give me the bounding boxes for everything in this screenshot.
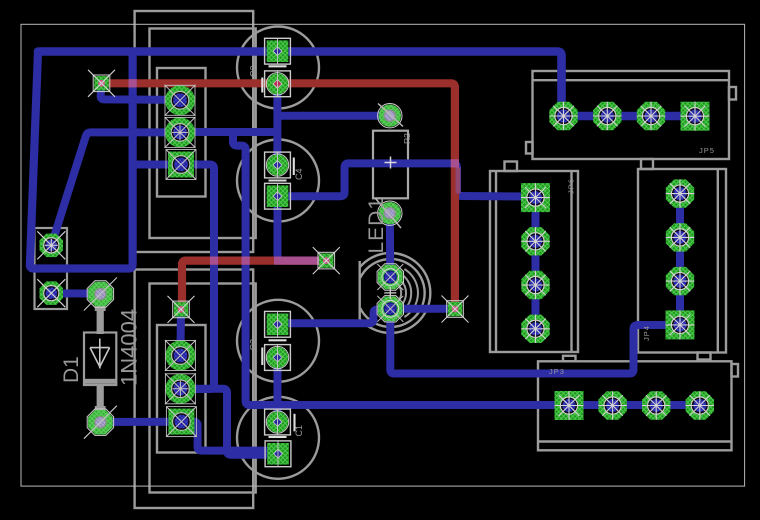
- via 4: [174, 302, 188, 316]
- wire via1 to IC1 pad1: [101, 83, 180, 100]
- svg-text:LED1: LED1: [365, 197, 388, 254]
- JP3 pad 1 (square): [555, 391, 584, 420]
- D1 cathode pad: [88, 410, 113, 435]
- svg-text:D1: D1: [60, 356, 83, 383]
- red-blue overlap patches: [129, 79, 461, 265]
- LED1 anode pad: [378, 265, 403, 290]
- resistor R2 silk box: [373, 131, 408, 199]
- wire SL1 pad2 to D1 anode: [51, 289, 100, 297]
- C3 polarity marks: [262, 66, 286, 92]
- via 3: [448, 302, 462, 316]
- wire JP6 pad column: [532, 198, 540, 329]
- R2 lead diagonals: [376, 104, 404, 229]
- C2 polarity marks: [262, 340, 286, 365]
- via 1: [94, 76, 108, 90]
- wire C4 minus down to via2: [278, 196, 327, 260]
- C4 polarity marks: [269, 158, 294, 181]
- silk box B2 inner (left module bottom): [150, 284, 256, 493]
- JP5 pad 2: [593, 102, 621, 130]
- R2 center cross: [385, 157, 397, 169]
- svg-text:C1: C1: [294, 425, 304, 437]
- IC1 pad 3: [168, 152, 194, 178]
- LED1 silkscreen circle with arcs: [360, 253, 431, 333]
- wire via4 to IC2 pad1: [176, 309, 185, 355]
- svg-text:JP6: JP6: [567, 178, 576, 194]
- JP3 pad 4: [686, 391, 714, 419]
- wire C2 plus to LED1 cathode: [278, 310, 390, 324]
- IC1 pad 2: [165, 117, 195, 147]
- JP6 pad 2: [521, 227, 549, 255]
- C1 pad + (round): [267, 411, 288, 432]
- JP6 pad 1 (square): [521, 183, 550, 212]
- C3 pad - (round): [267, 73, 288, 94]
- wire LED1 cathode to JP4 pin4: [390, 309, 680, 374]
- wire C3 minus to C4 plus: [273, 84, 281, 165]
- C2 pad + (square): [267, 314, 289, 336]
- svg-text:JP4: JP4: [642, 325, 651, 341]
- JP4 pad 1: [666, 179, 694, 207]
- JP3 pad 3: [642, 391, 670, 419]
- wire top rail to JP5 pin1: [38, 52, 695, 117]
- capacitor C2 silk circle: [237, 300, 319, 382]
- JP5 pad 1: [549, 102, 577, 130]
- C1 pad - (square): [267, 443, 289, 465]
- wire LED1 cathode to via3: [390, 305, 455, 313]
- wire C4 minus to JP6 pin1: [278, 163, 536, 196]
- connector JP3 silk box: [538, 356, 738, 451]
- connector SL1 box: [35, 228, 68, 309]
- IC2 pad 2: [165, 374, 195, 404]
- LED1 cathode pad: [378, 297, 403, 322]
- IC1 package box: [157, 68, 206, 197]
- C4 pad - (square): [267, 185, 289, 207]
- JP5 pad 4 (square): [681, 102, 710, 131]
- JP4 pad 3: [666, 267, 694, 295]
- wire left loop down: [30, 52, 133, 269]
- capacitor C1 silk circle: [237, 397, 319, 479]
- D1 anode pad: [88, 282, 113, 307]
- JP6 pad 3: [521, 271, 549, 299]
- via 2: [319, 253, 333, 267]
- wire D1 cathode to IC2 pad3: [100, 418, 181, 426]
- JP3 pad 2: [598, 391, 626, 419]
- C1 polarity marks: [269, 414, 295, 437]
- wire IC1 pad2 jog to bottom rail JP3: [233, 132, 700, 405]
- svg-text:C4: C4: [294, 168, 304, 180]
- wire IC2 pad2 to C1 minus: [180, 389, 278, 455]
- wire IC2 pad3 to C1: [181, 422, 271, 451]
- SL1 pad 2: [40, 281, 64, 305]
- red wire via1 to via3 top rail: [102, 83, 455, 309]
- LED1 center cross: [384, 287, 396, 299]
- wire IC1 pad2 right to C3-C4 net: [180, 128, 276, 136]
- capacitor C4 silk circle: [237, 140, 319, 222]
- JP4 pad 2: [666, 223, 694, 251]
- C2 pad - (round): [267, 347, 288, 368]
- IC2 pad 1: [165, 341, 195, 371]
- capacitor C3 silk circle: [237, 27, 319, 109]
- JP6 pad 4: [521, 315, 549, 343]
- R2 pad 2: [379, 202, 401, 224]
- wire junction to R2 top: [278, 112, 390, 120]
- C4 pad + (round): [267, 154, 288, 175]
- IC1 pad 1: [165, 85, 195, 115]
- wire C2 minus to C1 plus: [274, 358, 282, 423]
- wire IC1 pad3 rail to IC2 pad2: [133, 165, 214, 390]
- silk box B inner (left module top): [150, 29, 256, 239]
- IC2 package box: [157, 325, 206, 453]
- R2 pad 1: [379, 105, 401, 127]
- red wire via2 to via4: [182, 261, 326, 310]
- SL1 pad 1: [40, 234, 64, 258]
- IC2 pad 3: [168, 409, 194, 435]
- svg-text:R2: R2: [402, 133, 412, 144]
- silk box A2 outer (left module bottom): [135, 270, 254, 509]
- svg-text:C2: C2: [249, 339, 259, 351]
- JP4 pad 4 (square): [666, 310, 695, 339]
- wire R2 bottom to LED1 anode: [386, 213, 395, 277]
- svg-text:C3: C3: [249, 65, 259, 77]
- JP5 pad 3: [637, 102, 665, 130]
- svg-text:1N4004: 1N4004: [117, 309, 142, 386]
- connector JP5 silk box: [526, 71, 736, 159]
- connector JP6 silk box: [490, 162, 578, 353]
- C3 pad + (square): [267, 40, 289, 62]
- silk box A outer (left module top): [135, 11, 254, 252]
- connector JP4 silk box: [638, 159, 726, 360]
- diode D1 body+legs+symbol: [84, 300, 116, 415]
- svg-text:JP5: JP5: [699, 146, 715, 155]
- wire JP4 pad column: [676, 194, 684, 325]
- svg-text:JP3: JP3: [549, 367, 565, 376]
- wire IC1 pad2 to SL1 pad1: [51, 132, 180, 245]
